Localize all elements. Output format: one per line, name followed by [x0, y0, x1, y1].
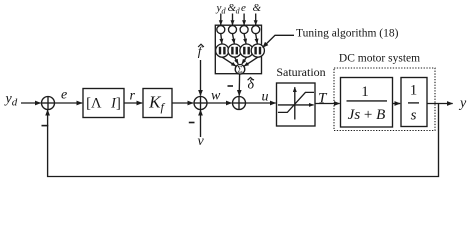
- svg-text:w: w: [211, 89, 221, 104]
- svg-text:y: y: [458, 96, 467, 111]
- svg-text:v: v: [198, 134, 205, 149]
- svg-text:u: u: [262, 90, 269, 105]
- svg-text:Tuning algorithm (18): Tuning algorithm (18): [296, 28, 399, 40]
- svg-text:Saturation: Saturation: [276, 65, 325, 79]
- svg-text:DC motor system: DC motor system: [339, 53, 420, 65]
- svg-text:1: 1: [361, 84, 369, 100]
- svg-text:1: 1: [410, 83, 418, 99]
- svg-text:e: e: [61, 88, 67, 103]
- svg-text:Σ: Σ: [237, 65, 242, 75]
- svg-text:&: &: [253, 2, 262, 14]
- svg-text:r: r: [130, 89, 136, 104]
- svg-text:Js + B: Js + B: [348, 107, 386, 123]
- svg-text:[Λ I]: [Λ I]: [86, 96, 121, 112]
- svg-text:s: s: [411, 108, 417, 124]
- svg-text:e: e: [241, 2, 246, 14]
